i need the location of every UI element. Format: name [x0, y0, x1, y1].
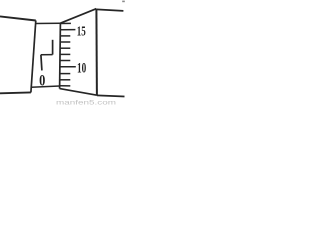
- svg-text:15: 15: [77, 24, 86, 39]
- sleeve top outer edge: [0, 16, 36, 20]
- svg-text:0: 0: [39, 72, 45, 89]
- thimble tick 1: [60, 22, 71, 24]
- thimble tick 6: [60, 53, 71, 55]
- thimble bottom slant: [60, 89, 97, 96]
- main scale upper half-mm tick: [52, 40, 54, 55]
- thimble top slant: [60, 9, 96, 24]
- micrometer screw gauge figure: [0, 0, 126, 105]
- main scale 0 tick: [41, 55, 42, 71]
- svg-text:manfen5.com: manfen5.com: [56, 101, 116, 106]
- svg-text:10: 10: [77, 60, 86, 76]
- thimble tick 5: [60, 47, 71, 49]
- thimble tick 2 long (15): [60, 29, 76, 31]
- thimble tick 7: [60, 60, 71, 62]
- sleeve bottom outer edge: [0, 91, 31, 94]
- barrel bottom inner line: [31, 86, 59, 87]
- ratchet top line: [96, 9, 123, 11]
- sleeve end vertical: [31, 21, 36, 93]
- thimble right edge: [95, 9, 98, 96]
- ratchet bottom line: [97, 95, 125, 96]
- speck top right: [122, 1, 125, 3]
- thimble tick 4: [60, 41, 70, 43]
- thimble tick 3: [60, 35, 70, 37]
- thimble tick 11: [60, 85, 71, 87]
- barrel top inner line: [36, 22, 61, 24]
- thimble left edge: [59, 23, 62, 88]
- main scale datum segment: [41, 54, 53, 56]
- thimble tick 10: [60, 79, 71, 81]
- thimble tick 9: [60, 73, 71, 75]
- thimble tick 8 long (10): [60, 66, 76, 68]
